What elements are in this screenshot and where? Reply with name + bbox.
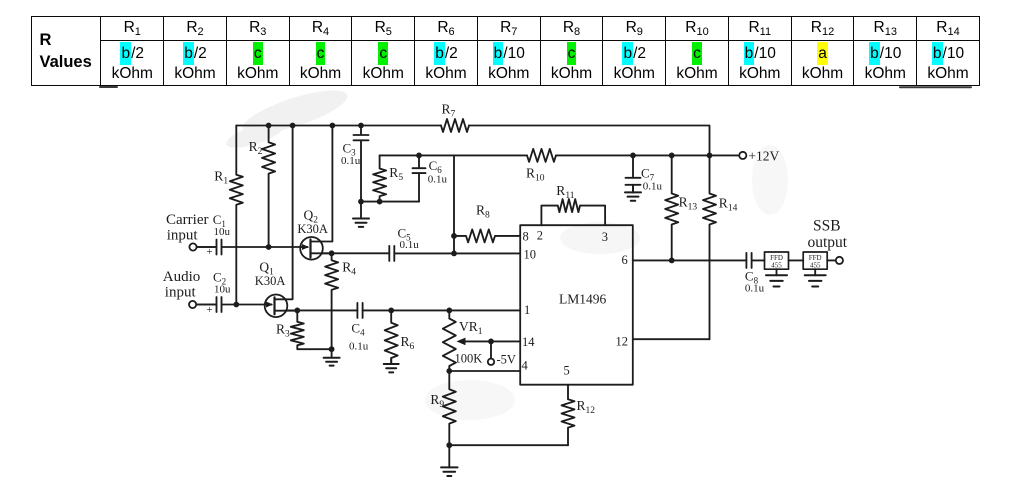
terminal SSB output [836,257,843,264]
svg-text:R5: R5 [389,165,403,183]
junction node VR1 bottom / pin 4 / R9 [446,368,452,374]
svg-text:+: + [207,304,213,316]
junction node +12V rail / R13 [669,153,675,159]
wire Q2 source to pin 10 (through C5) [321,252,520,254]
wire R9/R12 bottom link [449,444,568,446]
svg-text:input: input [167,228,199,244]
svg-text:0.1u: 0.1u [428,174,448,186]
junction node top rail / C3 [358,123,364,129]
wire +12V rail right segment (R10 to +12V terminal) [556,154,739,156]
terminal audio input [189,301,196,308]
svg-text:+12V: +12V [748,149,779,164]
ground below R6 [390,358,392,364]
svg-text:2: 2 [537,229,543,243]
scan smudge center [560,222,640,254]
svg-text:R10: R10 [526,166,545,184]
svg-text:C4: C4 [351,321,365,338]
capacitor C8 (0.1u) [746,253,764,268]
svg-text:12: 12 [616,335,629,349]
wire FL1 to FL2 [789,259,804,261]
svg-text:14: 14 [522,335,535,349]
potentiometer VR1 (100K) [443,310,456,371]
svg-text:1: 1 [524,303,530,317]
ceramic filter FL2 (FFD455) [803,252,827,269]
junction node R3/R4 bottom [329,346,335,352]
capacitor C5 (0.1u) [389,246,394,261]
svg-text:K30A: K30A [297,222,328,236]
junction node audio line / R1 bottom [233,302,239,308]
resistor R5 [373,155,386,201]
svg-text:-5V: -5V [497,353,516,367]
wire FL2 to output terminal [827,259,836,261]
scan smudge top left [224,82,352,153]
svg-text:R8: R8 [476,203,490,221]
svg-text:6: 6 [622,253,628,267]
table shadow tick left [100,86,117,88]
wire pin 6 output line [633,259,747,261]
svg-text:455: 455 [810,261,821,269]
wire top rail right segment and drop to +12V rail [469,126,710,156]
svg-text:8: 8 [523,230,529,244]
svg-text:R7: R7 [442,102,456,120]
resistor R11 [541,199,605,225]
svg-text:VR1: VR1 [459,319,483,337]
capacitor C7 (0.1u) [626,155,641,192]
ground below C7 [632,185,634,193]
svg-text:3: 3 [602,230,608,244]
junction node bias branch / R8 [451,233,457,239]
resistor R1 [230,126,243,305]
wire carrier input line (C1 to Q2 gate) [197,246,308,248]
svg-text:455: 455 [771,261,782,269]
ground below C3 [360,202,362,219]
junction node bias branch / pin 10 line [451,251,457,257]
junction node top rail / Q1 drain [290,123,296,129]
junction node pin 1 line / R6 [388,308,394,314]
junction node Q1 source / R3 [294,308,300,314]
svg-text:R14: R14 [719,196,738,214]
wire bias branch vertical from +12V rail [453,155,455,253]
capacitor C6 (0.1u) [413,155,426,201]
resistor R3 [291,310,332,349]
ground below R3/R4 [331,349,333,358]
resistor R6 [385,310,398,364]
junction node +12V rail / C7 [630,153,636,159]
svg-text:R13: R13 [679,195,698,213]
resistor R12 [562,385,575,446]
scan smudge bottom center [425,380,515,420]
resistor R13 [665,155,678,260]
scan smudge right [752,145,788,215]
ground below R9 [448,445,450,467]
svg-text:0.1u: 0.1u [349,341,369,353]
svg-text:+: + [207,246,213,258]
svg-text:Carrier: Carrier [166,212,208,228]
table shadow tick right [900,86,971,88]
transistor Q2 (K30A JFET) [300,237,323,260]
junction node C3 bottom bus [358,199,364,205]
op-amp U1 LM1496 body [520,225,633,385]
terminal -5V [488,359,494,365]
junction node carrier line / R2 bottom [266,244,272,250]
ground below FL2 [814,269,816,275]
junction node R9 bottom / R12 link [446,442,452,448]
svg-text:R4: R4 [342,260,356,278]
capacitor C1 (10u) [197,240,222,255]
svg-text:LM1496: LM1496 [559,292,607,307]
svg-text:100K: 100K [455,352,483,366]
svg-text:K30A: K30A [255,274,286,288]
junction node +12V rail / R7,R14 [707,153,713,159]
ground below FL1 [776,269,778,275]
terminal carrier input [189,243,196,250]
junction node top rail / Q2 drain [330,123,336,129]
resistor R4 [325,253,338,349]
junction node top rail / R2 [266,123,272,129]
svg-text:0.1u: 0.1u [400,239,420,251]
svg-text:10u: 10u [214,226,231,238]
wire top rail left segment [236,125,441,127]
wire pin 12 to R14 bottom [633,338,710,340]
svg-text:R6: R6 [401,334,415,352]
svg-text:10: 10 [524,248,537,262]
wire C3/R5/C6 bottom bus [361,201,419,203]
svg-text:input: input [165,285,197,301]
capacitor C2 (10u) [196,297,221,312]
wire +12V rail left segment (R5 top to R10) [380,154,527,156]
transistor Q1 (K30A JFET) [265,295,288,318]
svg-text:0.1u: 0.1u [341,155,361,167]
svg-text:0.1u: 0.1u [745,283,765,295]
junction node pin 6 line / R13 bottom [669,258,675,264]
svg-text:0.1u: 0.1u [643,181,663,193]
resistor R7 [441,119,469,132]
wire pin 4 line [449,370,520,372]
svg-text:5: 5 [564,364,570,378]
wire Q1 source / pin 1 line (through C4) [286,309,520,311]
ceramic filter FL1 (FFD455) [765,252,789,269]
wire audio input line (C2 to Q1 gate) [196,304,271,306]
capacitor C4 (0.1u) [357,303,362,318]
junction node pin 1 line / VR1 top [446,308,452,314]
svg-text:SSB: SSB [813,218,841,235]
svg-text:Audio: Audio [163,269,201,285]
resistor R10 [527,149,556,162]
svg-text:R11: R11 [556,183,574,201]
junction node pin 14 line / -5V stub [488,339,494,345]
resistor R9 [443,371,456,445]
svg-text:output: output [808,234,848,251]
svg-text:4: 4 [522,359,529,373]
junction node Q2 source / R4 / C5 [329,250,335,256]
junction node +12V rail / C6 [416,153,422,159]
junction node R5 bottom [377,199,383,205]
capacitor C3 (0.1u) [354,126,369,202]
resistor R14 [703,155,716,339]
resistor R8 [454,229,520,242]
resistor R2 [262,126,275,248]
svg-text:R1: R1 [214,169,228,187]
svg-text:R3: R3 [276,322,290,340]
svg-text:10u: 10u [214,284,231,296]
terminal +12V [739,152,746,159]
svg-text:R12: R12 [577,398,596,416]
